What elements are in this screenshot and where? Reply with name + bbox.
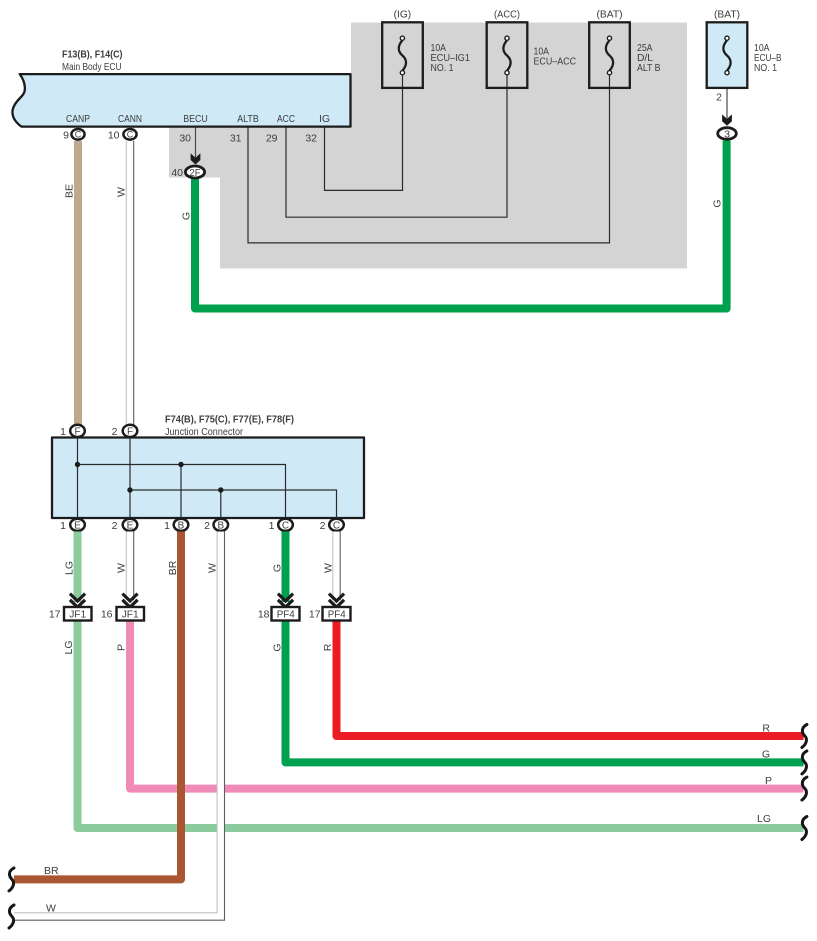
svg-text:P: P bbox=[116, 644, 128, 651]
svg-text:29: 29 bbox=[266, 133, 278, 145]
svg-text:G: G bbox=[712, 199, 724, 207]
svg-text:Junction Connector: Junction Connector bbox=[165, 426, 243, 438]
svg-text:F74(B), F75(C), F77(E), F78(F): F74(B), F75(C), F77(E), F78(F) bbox=[165, 414, 294, 426]
svg-text:R: R bbox=[762, 723, 770, 735]
svg-text:ALT B: ALT B bbox=[637, 62, 661, 74]
wire W from 2B bbox=[14, 532, 225, 921]
junction bottom pin 2 B bbox=[204, 519, 228, 532]
junction bottom pin 2 E bbox=[112, 519, 138, 532]
svg-text:C: C bbox=[282, 521, 289, 532]
Main Body ECU box bbox=[12, 49, 350, 127]
svg-text:(BAT): (BAT) bbox=[714, 9, 740, 21]
svg-text:LG: LG bbox=[64, 561, 76, 575]
svg-text:18: 18 bbox=[258, 609, 270, 621]
junction bottom pin 1 B bbox=[164, 519, 188, 532]
svg-text:W: W bbox=[116, 563, 128, 573]
svg-text:LG: LG bbox=[757, 813, 771, 825]
svg-text:1: 1 bbox=[60, 426, 66, 438]
break symbol right R bbox=[802, 725, 807, 748]
svg-text:(IG): (IG) bbox=[394, 9, 412, 21]
svg-text:W: W bbox=[116, 187, 128, 197]
svg-text:CANP: CANP bbox=[66, 113, 90, 125]
Junction Connector box bbox=[52, 414, 364, 519]
svg-text:W: W bbox=[207, 563, 219, 573]
fuse ECU-IG1 NO.1 bbox=[382, 9, 470, 88]
fuse ECU-B NO.1 bbox=[707, 9, 782, 104]
svg-text:E: E bbox=[127, 521, 134, 532]
svg-text:CANN: CANN bbox=[118, 113, 142, 125]
svg-text:10: 10 bbox=[108, 130, 120, 142]
svg-text:16: 16 bbox=[101, 609, 113, 621]
svg-text:F13(B), F14(C): F13(B), F14(C) bbox=[62, 49, 123, 61]
svg-text:BR: BR bbox=[44, 865, 59, 877]
svg-text:LG: LG bbox=[63, 640, 75, 654]
svg-text:30: 30 bbox=[179, 133, 191, 145]
svg-text:1: 1 bbox=[60, 520, 66, 532]
svg-text:E: E bbox=[74, 521, 81, 532]
svg-text:17: 17 bbox=[309, 609, 321, 621]
wire W from pin 10 bbox=[126, 141, 133, 425]
chevron arrow above PF4 18 bbox=[278, 594, 293, 608]
svg-text:1: 1 bbox=[164, 520, 170, 532]
svg-text:2: 2 bbox=[716, 92, 722, 104]
break symbol right G bbox=[802, 751, 807, 774]
svg-text:G: G bbox=[272, 564, 284, 572]
connector PF4 17 bbox=[309, 607, 351, 621]
svg-text:2: 2 bbox=[112, 426, 118, 438]
wire G below PF4 18 bbox=[286, 621, 804, 763]
svg-text:F: F bbox=[127, 427, 133, 438]
connector JF1 17 bbox=[49, 607, 92, 621]
svg-text:NO. 1: NO. 1 bbox=[754, 62, 777, 74]
svg-text:2F: 2F bbox=[190, 167, 201, 179]
wire W from 2C bbox=[333, 532, 340, 601]
svg-text:C: C bbox=[75, 129, 82, 139]
wire BR from 1B bbox=[14, 532, 181, 880]
internal wiring net 1 bbox=[78, 438, 286, 519]
pin 10 C bbox=[108, 129, 137, 142]
wire LG from 1E bbox=[74, 532, 82, 603]
svg-text:2: 2 bbox=[112, 520, 118, 532]
wire R below PF4 17 bbox=[337, 621, 804, 737]
svg-text:C: C bbox=[127, 129, 134, 139]
svg-text:(BAT): (BAT) bbox=[597, 9, 623, 21]
svg-text:IG: IG bbox=[319, 113, 330, 125]
svg-text:BR: BR bbox=[167, 560, 179, 575]
svg-text:ACC: ACC bbox=[277, 113, 295, 125]
svg-text:F: F bbox=[74, 427, 80, 438]
arrow into 2F bbox=[191, 153, 201, 164]
svg-text:32: 32 bbox=[305, 133, 317, 145]
connector ellipse 3 bbox=[718, 128, 737, 140]
break symbol right P bbox=[802, 777, 807, 800]
junction bottom pin 1 E bbox=[60, 519, 85, 532]
wire IG pin 32 to ECU-IG1 fuse bbox=[325, 75, 403, 190]
svg-text:3: 3 bbox=[724, 128, 730, 140]
wire G from 1C bbox=[282, 532, 290, 603]
svg-text:40: 40 bbox=[171, 167, 183, 179]
connector JF1 16 bbox=[101, 607, 144, 621]
wire ACC pin 29 to ECU-ACC fuse bbox=[286, 75, 507, 217]
svg-text:JF1: JF1 bbox=[69, 609, 86, 621]
break symbol left BR bbox=[9, 868, 14, 891]
svg-text:2: 2 bbox=[204, 520, 210, 532]
wire from BECU pin 30 bbox=[195, 127, 197, 158]
svg-text:1: 1 bbox=[269, 520, 275, 532]
svg-text:2: 2 bbox=[320, 520, 326, 532]
chevron arrow above JF1 17 bbox=[70, 594, 85, 608]
junction bottom pin 2 C bbox=[320, 519, 344, 532]
break symbol right LG bbox=[802, 817, 807, 840]
svg-text:BE: BE bbox=[64, 184, 76, 198]
svg-text:BECU: BECU bbox=[183, 113, 208, 125]
chevron arrow above PF4 17 bbox=[329, 594, 344, 608]
svg-text:(ACC): (ACC) bbox=[494, 9, 520, 21]
arrow into 3 bbox=[722, 114, 732, 125]
svg-text:G: G bbox=[272, 643, 284, 651]
svg-text:Main Body ECU: Main Body ECU bbox=[62, 61, 122, 73]
svg-text:B: B bbox=[217, 521, 224, 532]
fuse ECU-ACC bbox=[487, 9, 577, 88]
svg-text:9: 9 bbox=[63, 130, 69, 142]
fuse D/L ALT B bbox=[589, 9, 660, 88]
svg-text:ALTB: ALTB bbox=[237, 113, 259, 125]
svg-text:JF1: JF1 bbox=[122, 609, 139, 621]
svg-text:G: G bbox=[762, 749, 770, 761]
svg-text:G: G bbox=[181, 212, 193, 220]
wire ALTB pin 31 to D/L ALT B fuse bbox=[248, 75, 610, 243]
svg-text:PF4: PF4 bbox=[277, 609, 295, 621]
wire BE from pin 9 bbox=[74, 141, 82, 425]
svg-text:NO. 1: NO. 1 bbox=[431, 62, 454, 74]
svg-text:31: 31 bbox=[230, 133, 242, 145]
green wire G from 2F to 3 bbox=[195, 141, 727, 309]
svg-text:ECU–ACC: ECU–ACC bbox=[534, 56, 577, 68]
svg-text:C: C bbox=[333, 521, 340, 532]
svg-text:W: W bbox=[323, 563, 335, 573]
junction top pin 1 F bbox=[60, 425, 85, 438]
wire P below JF1 16 bbox=[130, 621, 804, 789]
wire W from 2E bbox=[126, 532, 133, 601]
power source shaded area bbox=[169, 23, 687, 269]
wire ECU-B fuse pin 2 bbox=[726, 75, 728, 119]
svg-text:B: B bbox=[178, 521, 185, 532]
pin 9 C bbox=[63, 129, 84, 142]
svg-text:P: P bbox=[765, 775, 772, 787]
wire LG below JF1 17 bbox=[78, 621, 804, 829]
junction top pin 2 F bbox=[112, 425, 138, 438]
connector ellipse 2F bbox=[185, 166, 204, 178]
svg-text:17: 17 bbox=[49, 609, 61, 621]
chevron arrow above JF1 16 bbox=[122, 594, 137, 608]
junction bottom pin 1 C bbox=[269, 519, 293, 532]
internal wiring net 2 bbox=[130, 438, 337, 519]
svg-text:W: W bbox=[46, 903, 56, 915]
svg-text:R: R bbox=[322, 643, 334, 651]
svg-text:PF4: PF4 bbox=[328, 609, 346, 621]
connector PF4 18 bbox=[258, 607, 300, 621]
break symbol left W bbox=[9, 905, 14, 928]
